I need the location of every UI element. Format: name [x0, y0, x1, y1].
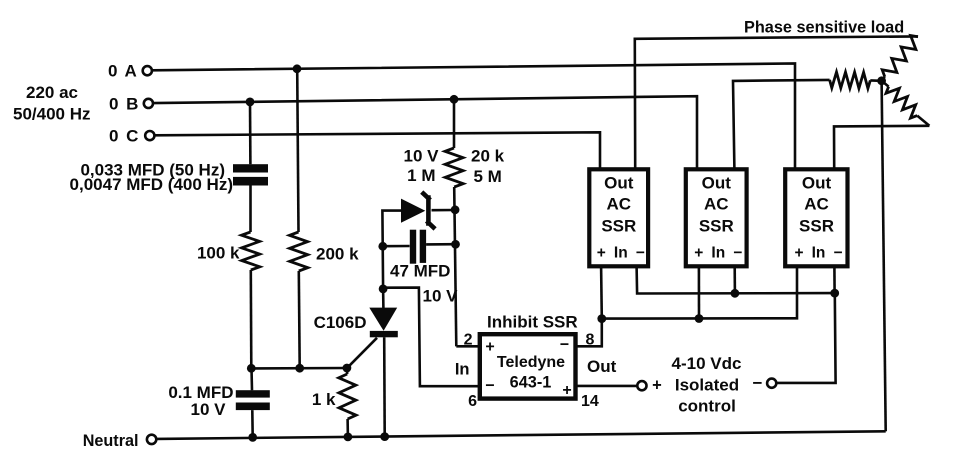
- svg-text:2: 2: [464, 332, 473, 349]
- wire neutral: [156, 431, 885, 439]
- svg-text:0,0047 MFD (400 Hz): 0,0047 MFD (400 Hz): [70, 175, 233, 194]
- svg-text:In: In: [711, 245, 725, 262]
- terminal phase B: [144, 99, 153, 108]
- node gate rail right: [343, 364, 352, 373]
- svg-text:+: +: [485, 339, 494, 356]
- node SCR neutral: [380, 432, 389, 441]
- wire SSR2 out to load mid: [733, 80, 830, 169]
- wire C1 to R1: [249, 186, 252, 233]
- wire plus bus: [602, 267, 797, 319]
- svg-text:+: +: [597, 245, 606, 262]
- resistor R1 100 k: [242, 232, 260, 270]
- wire SSR3 minus pin: [833, 267, 836, 293]
- svg-text:Out: Out: [702, 174, 732, 193]
- svg-text:SSR: SSR: [699, 217, 734, 236]
- node plus bus SSR2: [695, 314, 704, 323]
- svg-text:SSR: SSR: [799, 217, 834, 236]
- svg-text:0 A: 0 A: [108, 62, 138, 81]
- svg-text:+: +: [652, 377, 662, 395]
- wire SCR gate: [348, 338, 378, 368]
- wire load lower lead1: [882, 81, 889, 87]
- node load center: [877, 76, 886, 85]
- node capacitor left rail: [378, 242, 387, 251]
- wire phase A: [152, 64, 795, 170]
- svg-text:200 k: 200 k: [316, 245, 359, 264]
- svg-text:10 V: 10 V: [191, 400, 227, 419]
- wire C3 left stub: [383, 245, 410, 248]
- wire SSR2 plus pin: [698, 267, 701, 319]
- wire node to capacitor C2: [250, 368, 253, 390]
- svg-text:Teledyne: Teledyne: [497, 354, 565, 371]
- svg-text:14: 14: [581, 393, 599, 410]
- node phase A junction: [293, 64, 302, 73]
- svg-text:C106D: C106D: [314, 313, 367, 332]
- terminal control minus: [767, 379, 776, 388]
- svg-text:−: −: [733, 245, 742, 262]
- SSR1 body: [589, 169, 648, 266]
- wire left rail: [382, 211, 401, 289]
- node phase B junction to zener branch: [450, 95, 459, 104]
- wire control minus: [776, 293, 835, 383]
- wire node to R3: [346, 368, 349, 374]
- svg-text:0 C: 0 C: [109, 127, 140, 146]
- wire load middle lead: [870, 79, 877, 82]
- svg-text:AC: AC: [804, 195, 829, 214]
- svg-text:10 V: 10 V: [404, 147, 440, 166]
- wire load lower lead2: [917, 116, 929, 126]
- terminal phase A: [143, 66, 152, 75]
- wire C2 to neutral: [251, 410, 254, 437]
- svg-text:Inhibit SSR: Inhibit SSR: [487, 313, 578, 332]
- IC U1 Teledyne 643-1 body: [480, 334, 576, 398]
- wire load center to neutral: [882, 81, 886, 432]
- svg-text:4-10 Vdc: 4-10 Vdc: [672, 354, 742, 373]
- svg-text:Isolated: Isolated: [675, 376, 739, 395]
- node minus bus SSR3: [830, 289, 839, 298]
- svg-text:In: In: [812, 245, 826, 262]
- svg-text:−: −: [485, 378, 494, 395]
- svg-text:0 B: 0 B: [109, 94, 140, 113]
- svg-text:In: In: [455, 361, 470, 379]
- svg-text:Neutral: Neutral: [83, 432, 139, 450]
- node phase B junction to line capacitor: [246, 98, 255, 107]
- wire load upper lead: [882, 77, 885, 81]
- node capacitor right rail: [451, 240, 460, 249]
- zener diode CR1 bar: [423, 194, 433, 228]
- wire minus bus: [637, 267, 835, 294]
- SCR C106D cathode bar: [370, 331, 398, 337]
- SSR2 body: [686, 169, 747, 266]
- svg-text:AC: AC: [607, 195, 632, 214]
- zener diode CR1 triangle: [401, 199, 425, 223]
- svg-text:In: In: [614, 245, 628, 262]
- wire pin 14 output: [576, 385, 638, 388]
- svg-text:1 k: 1 k: [312, 390, 336, 409]
- terminal neutral: [147, 435, 156, 444]
- terminal phase C: [145, 131, 154, 140]
- wire pin 2: [456, 345, 480, 348]
- wire SSR2 minus pin: [733, 267, 736, 294]
- terminal control plus: [637, 381, 646, 390]
- resistor R4 20 k 5 M: [445, 148, 463, 187]
- wire pin 8: [576, 320, 602, 347]
- capacitor C2 0.1 MFD plate 2: [236, 403, 270, 411]
- node plus bus SSR1: [597, 314, 606, 323]
- svg-text:Phase sensitive load: Phase sensitive load: [744, 19, 904, 37]
- node zener right rail: [451, 205, 460, 214]
- node gate rail left: [247, 364, 256, 373]
- SSR3 body: [785, 169, 847, 266]
- load resistor middle: [830, 72, 871, 88]
- svg-text:+: +: [694, 245, 703, 262]
- svg-text:5 M: 5 M: [474, 167, 502, 186]
- capacitor C1 0,033 MFD plate 2: [233, 177, 268, 186]
- svg-text:100 k: 100 k: [197, 244, 240, 263]
- wire SSR1 plus pin: [600, 267, 603, 319]
- wire phase C: [155, 132, 601, 169]
- wire SCR cathode to neutral: [383, 337, 386, 436]
- svg-text:−: −: [636, 245, 645, 262]
- load resistor lower: [886, 87, 917, 119]
- capacitor C1 0,033 MFD plate 1: [233, 164, 268, 172]
- svg-text:−: −: [560, 337, 569, 354]
- svg-text:643-1: 643-1: [510, 374, 552, 392]
- svg-text:control: control: [678, 397, 736, 416]
- svg-text:47 MFD: 47 MFD: [390, 262, 450, 281]
- svg-text:20 k: 20 k: [471, 147, 505, 166]
- svg-text:−: −: [753, 374, 763, 393]
- wire A to R2: [297, 69, 298, 232]
- wire R2 to gate node: [297, 271, 301, 368]
- svg-text:−: −: [833, 245, 842, 262]
- svg-text:10 V: 10 V: [423, 287, 459, 306]
- svg-text:SSR: SSR: [601, 217, 636, 236]
- wire B to capacitor C1: [249, 102, 252, 164]
- wire pin 6: [383, 288, 479, 387]
- svg-text:Out: Out: [587, 357, 617, 376]
- wire phase B: [153, 96, 697, 169]
- svg-text:50/400 Hz: 50/400 Hz: [13, 105, 91, 124]
- resistor R2 200 k: [290, 232, 308, 271]
- wire R1 to gate node rail: [250, 270, 253, 368]
- capacitor C3 47 MFD plate 2: [420, 230, 426, 263]
- capacitor C2 0.1 MFD plate 1: [236, 390, 270, 397]
- svg-text:+: +: [562, 382, 571, 399]
- svg-text:+: +: [794, 245, 803, 262]
- wire C3 right stub: [426, 243, 455, 246]
- svg-text:AC: AC: [704, 195, 729, 214]
- node gate rail mid: [295, 364, 304, 373]
- svg-text:6: 6: [468, 393, 477, 410]
- wire SSR3 out to load bottom: [834, 126, 929, 169]
- node SCR anode: [379, 285, 388, 294]
- capacitor C3 47 MFD plate 1: [410, 230, 416, 264]
- wire SSR1 out to load top: [635, 36, 918, 169]
- wire right rail: [454, 187, 456, 346]
- node R3 neutral: [344, 433, 353, 442]
- resistor R3 1 k: [339, 374, 356, 419]
- svg-text:Out: Out: [802, 174, 832, 193]
- node minus bus SSR2: [731, 289, 740, 298]
- svg-text:220 ac: 220 ac: [26, 83, 78, 102]
- wire R3 to neutral: [346, 419, 349, 437]
- svg-text:Out: Out: [604, 174, 634, 193]
- wire gate rail: [251, 367, 347, 370]
- svg-text:1 M: 1 M: [407, 166, 435, 185]
- load resistor upper: [882, 36, 918, 77]
- wire B to R4: [453, 99, 456, 148]
- wire anode node to SCR: [382, 289, 385, 308]
- node C2 neutral: [248, 433, 257, 442]
- wire zener to right rail: [432, 209, 456, 212]
- SCR C106D triangle: [369, 308, 397, 331]
